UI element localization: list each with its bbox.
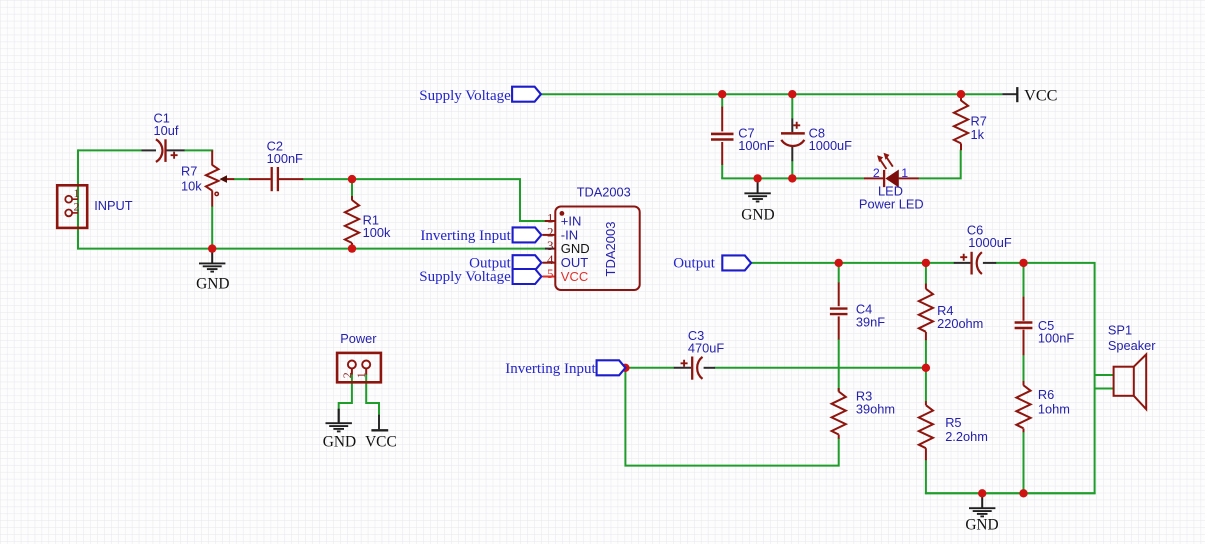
wire supply voltage rail — [541, 93, 1002, 95]
svg-text:1: 1 — [901, 166, 908, 180]
capacitor C5 top pin — [1023, 297, 1025, 321]
svg-text:100nF: 100nF — [267, 151, 303, 166]
svg-text:10k: 10k — [181, 179, 202, 194]
net flag Output pin4 — [513, 255, 542, 270]
wire C6 left pin lead — [954, 262, 971, 264]
wire C4 top — [838, 263, 840, 283]
wire power pin1 to vcc — [366, 374, 379, 415]
svg-text:2: 2 — [547, 224, 554, 239]
INPUT pin numbers — [74, 186, 80, 214]
svg-text:R5: R5 — [945, 415, 961, 430]
capacitor C5 — [1015, 323, 1033, 329]
svg-text:10uf: 10uf — [154, 123, 179, 138]
IC pin 5 stub (VCC) — [542, 276, 555, 278]
svg-text:Supply Voltage: Supply Voltage — [419, 88, 511, 104]
wire R4 bottom — [925, 340, 927, 368]
wire pot bottom to rail — [211, 206, 213, 249]
wire C6 to speaker loop — [925, 263, 1095, 493]
capacitor C7 top pin — [721, 107, 723, 132]
wire speaker stub 2 — [1095, 388, 1114, 390]
IC pin1 indicator dot — [560, 211, 565, 216]
svg-text:VCC: VCC — [1024, 87, 1057, 105]
net flag Supply Voltage top — [512, 87, 541, 102]
ground symbol bottom — [969, 494, 995, 517]
INPUT pin 2 stub — [72, 212, 78, 214]
resistor R5 bottom lead — [925, 448, 927, 460]
svg-text:Supply Voltage: Supply Voltage — [419, 269, 511, 285]
resistor R5 top lead — [925, 401, 927, 405]
IC pin 1 stub — [545, 220, 556, 222]
wire C3 right pin lead — [704, 367, 716, 369]
wire C3 left pin lead — [674, 367, 691, 369]
svg-text:100nF: 100nF — [1038, 330, 1074, 345]
svg-text:1k: 1k — [971, 127, 985, 142]
wire R5 bottom — [925, 460, 927, 495]
net flag Supply Voltage pin5 — [513, 269, 542, 284]
ground symbol input — [199, 249, 225, 272]
svg-text:2: 2 — [74, 200, 80, 214]
wire R6 bottom — [1023, 432, 1025, 494]
svg-text:2: 2 — [340, 372, 354, 378]
wire C5 top — [1023, 263, 1025, 297]
resistor R6 top lead — [1023, 381, 1025, 386]
svg-text:1: 1 — [354, 372, 368, 378]
svg-text:VCC: VCC — [561, 269, 588, 284]
IC U1 TDA2003 body — [555, 207, 639, 291]
svg-text:4: 4 — [547, 252, 554, 267]
potentiometer R7 wiper lead — [226, 178, 234, 180]
wire power pin2 to gnd — [339, 374, 352, 409]
svg-text:220ohm: 220ohm — [937, 316, 983, 331]
resistor R3 — [832, 392, 846, 435]
wire C4 to R3 — [838, 339, 840, 392]
VCC bar top right — [1016, 87, 1018, 102]
svg-text:1000uF: 1000uF — [809, 138, 853, 153]
capacitor C4 bottom pin — [838, 316, 840, 339]
wire R1 bottom — [351, 243, 353, 248]
svg-text:1000uF: 1000uF — [968, 235, 1012, 250]
wire input left vertical — [77, 149, 79, 248]
resistor R4 top lead — [925, 284, 927, 289]
capacitor C7 — [711, 134, 734, 140]
capacitor C5 bottom pin — [1023, 330, 1025, 356]
potentiometer R7 top lead — [211, 150, 213, 165]
resistor R1 — [345, 200, 359, 243]
wire speaker stub 1 — [1095, 374, 1114, 376]
wire C1 left pin lead — [142, 149, 157, 151]
svg-text:100nF: 100nF — [738, 138, 774, 153]
svg-text:Inverting Input: Inverting Input — [505, 361, 596, 377]
svg-text:470uF: 470uF — [688, 341, 724, 356]
wire gnd rail C7 to LED — [721, 177, 864, 179]
svg-text:2.2ohm: 2.2ohm — [945, 429, 988, 444]
component labels sans blue — [94, 110, 1156, 444]
potentiometer R7 10k — [206, 165, 227, 196]
svg-text:GND: GND — [741, 206, 774, 223]
svg-text:VCC: VCC — [365, 433, 397, 450]
net flag Inverting Input pin2 — [513, 227, 542, 242]
svg-text:TDA2003: TDA2003 — [577, 185, 631, 200]
svg-text:-IN: -IN — [561, 227, 578, 242]
power gnd black lead — [338, 409, 340, 422]
svg-text:2: 2 — [873, 166, 880, 180]
resistor R1 bottom lead — [351, 243, 353, 248]
wire R4 top — [925, 263, 927, 284]
resistor R7 1k — [954, 100, 968, 143]
wire bottom rail to IC pin3 — [77, 248, 546, 250]
power pin 1 stub — [365, 369, 367, 375]
svg-text:5: 5 — [547, 266, 554, 281]
svg-text:1: 1 — [74, 186, 80, 200]
INPUT pin 1 stub — [72, 198, 78, 200]
svg-text:100k: 100k — [363, 225, 391, 240]
LED right lead — [899, 177, 919, 179]
resistor R7 1k bottom lead — [960, 143, 962, 150]
capacitor C6 — [960, 252, 982, 275]
Power pin numbers rotated — [340, 372, 368, 378]
svg-text:+IN: +IN — [561, 214, 582, 229]
resistor R4 bottom lead — [925, 332, 927, 340]
wire feedback loop down — [625, 368, 838, 466]
svg-text:Power LED: Power LED — [859, 197, 924, 212]
svg-text:R6: R6 — [1038, 387, 1054, 402]
wire C5 to R6 — [1023, 355, 1025, 386]
potentiometer R7 bottom lead — [211, 191, 213, 207]
net flag Inverting Input bottom — [597, 360, 626, 375]
connector Power — [337, 353, 381, 382]
wire LED to R7 corner — [919, 150, 961, 179]
IC pin numbers — [547, 210, 554, 281]
net label texts serif blue — [419, 88, 715, 377]
svg-text:Inverting Input: Inverting Input — [420, 228, 511, 244]
capacitor C2 — [272, 167, 278, 191]
resistor R3 top lead — [838, 388, 840, 392]
svg-text:Power: Power — [340, 331, 377, 346]
capacitor C4 — [830, 309, 848, 315]
wire R1 top — [351, 179, 353, 196]
VCC bar power — [371, 429, 388, 431]
wire C1 to pot corner — [184, 149, 213, 151]
connector INPUT — [57, 185, 87, 228]
wire C6 right pin lead — [983, 262, 996, 264]
resistor R5 — [919, 405, 933, 448]
svg-text:GND: GND — [196, 276, 229, 293]
wire C7 top — [721, 94, 723, 107]
IC pin 3 stub — [545, 248, 556, 250]
resistor R6 — [1016, 385, 1030, 428]
svg-text:1ohm: 1ohm — [1038, 402, 1070, 417]
capacitor C2 left pin — [249, 178, 271, 180]
svg-text:GND: GND — [965, 517, 998, 534]
wire wiper gap — [234, 178, 250, 180]
LED power led — [877, 153, 899, 188]
resistor R6 bottom lead — [1023, 429, 1025, 433]
wire gnd rail bottom — [926, 492, 1096, 494]
capacitor C3 — [681, 357, 703, 380]
LED left lead — [864, 177, 883, 179]
svg-text:39ohm: 39ohm — [856, 401, 895, 416]
wire C8 bottom pin lead — [791, 145, 793, 161]
resistor R4 — [919, 289, 933, 332]
ground symbol power — [326, 409, 352, 432]
resistor R1 top lead — [351, 196, 353, 200]
svg-text:R7: R7 — [181, 164, 197, 179]
wire C7 bottom — [721, 164, 723, 178]
svg-text:SP1: SP1 — [1108, 322, 1132, 337]
wire C8 top — [791, 94, 793, 119]
svg-text:39nF: 39nF — [856, 315, 885, 330]
svg-text:GND: GND — [323, 433, 356, 450]
svg-text:OUT: OUT — [561, 255, 589, 270]
resistor R3 bottom lead — [838, 435, 840, 439]
svg-text:INPUT: INPUT — [94, 198, 133, 213]
svg-text:TDA2003: TDA2003 — [603, 222, 618, 277]
speaker SP1 — [1114, 354, 1147, 409]
VCC flag black lead — [1002, 93, 1016, 95]
wire output row — [751, 262, 954, 264]
svg-text:Speaker: Speaker — [1108, 338, 1156, 353]
wire R5 top — [925, 368, 927, 402]
wire C8 top pin lead — [791, 119, 793, 133]
capacitor C8 — [781, 122, 805, 146]
net flag Output mid — [722, 255, 751, 270]
capacitor C7 bottom pin — [721, 142, 723, 165]
ground symbol top — [744, 179, 770, 202]
IC pin 2 stub — [542, 234, 555, 236]
capacitor C2 right pin — [279, 178, 303, 180]
wire inverting input to C3 — [625, 367, 674, 369]
wire C2 to IC pin1 — [303, 179, 546, 221]
svg-text:3: 3 — [547, 238, 554, 253]
resistor R7 1k top lead — [960, 95, 962, 101]
wire input top — [78, 149, 142, 151]
power vcc black lead — [378, 415, 380, 430]
capacitor C1 — [156, 139, 178, 162]
power pin 2 stub — [351, 369, 353, 375]
wire C1 right pin lead — [166, 149, 184, 151]
IC pin 4 stub — [542, 262, 555, 264]
svg-text:1: 1 — [547, 210, 554, 225]
svg-text:GND: GND — [561, 241, 590, 256]
wire C8 bottom — [791, 161, 793, 179]
wire C3 to R4 junction — [715, 367, 926, 369]
svg-text:Output: Output — [673, 256, 716, 272]
capacitor C4 top pin — [838, 283, 840, 307]
